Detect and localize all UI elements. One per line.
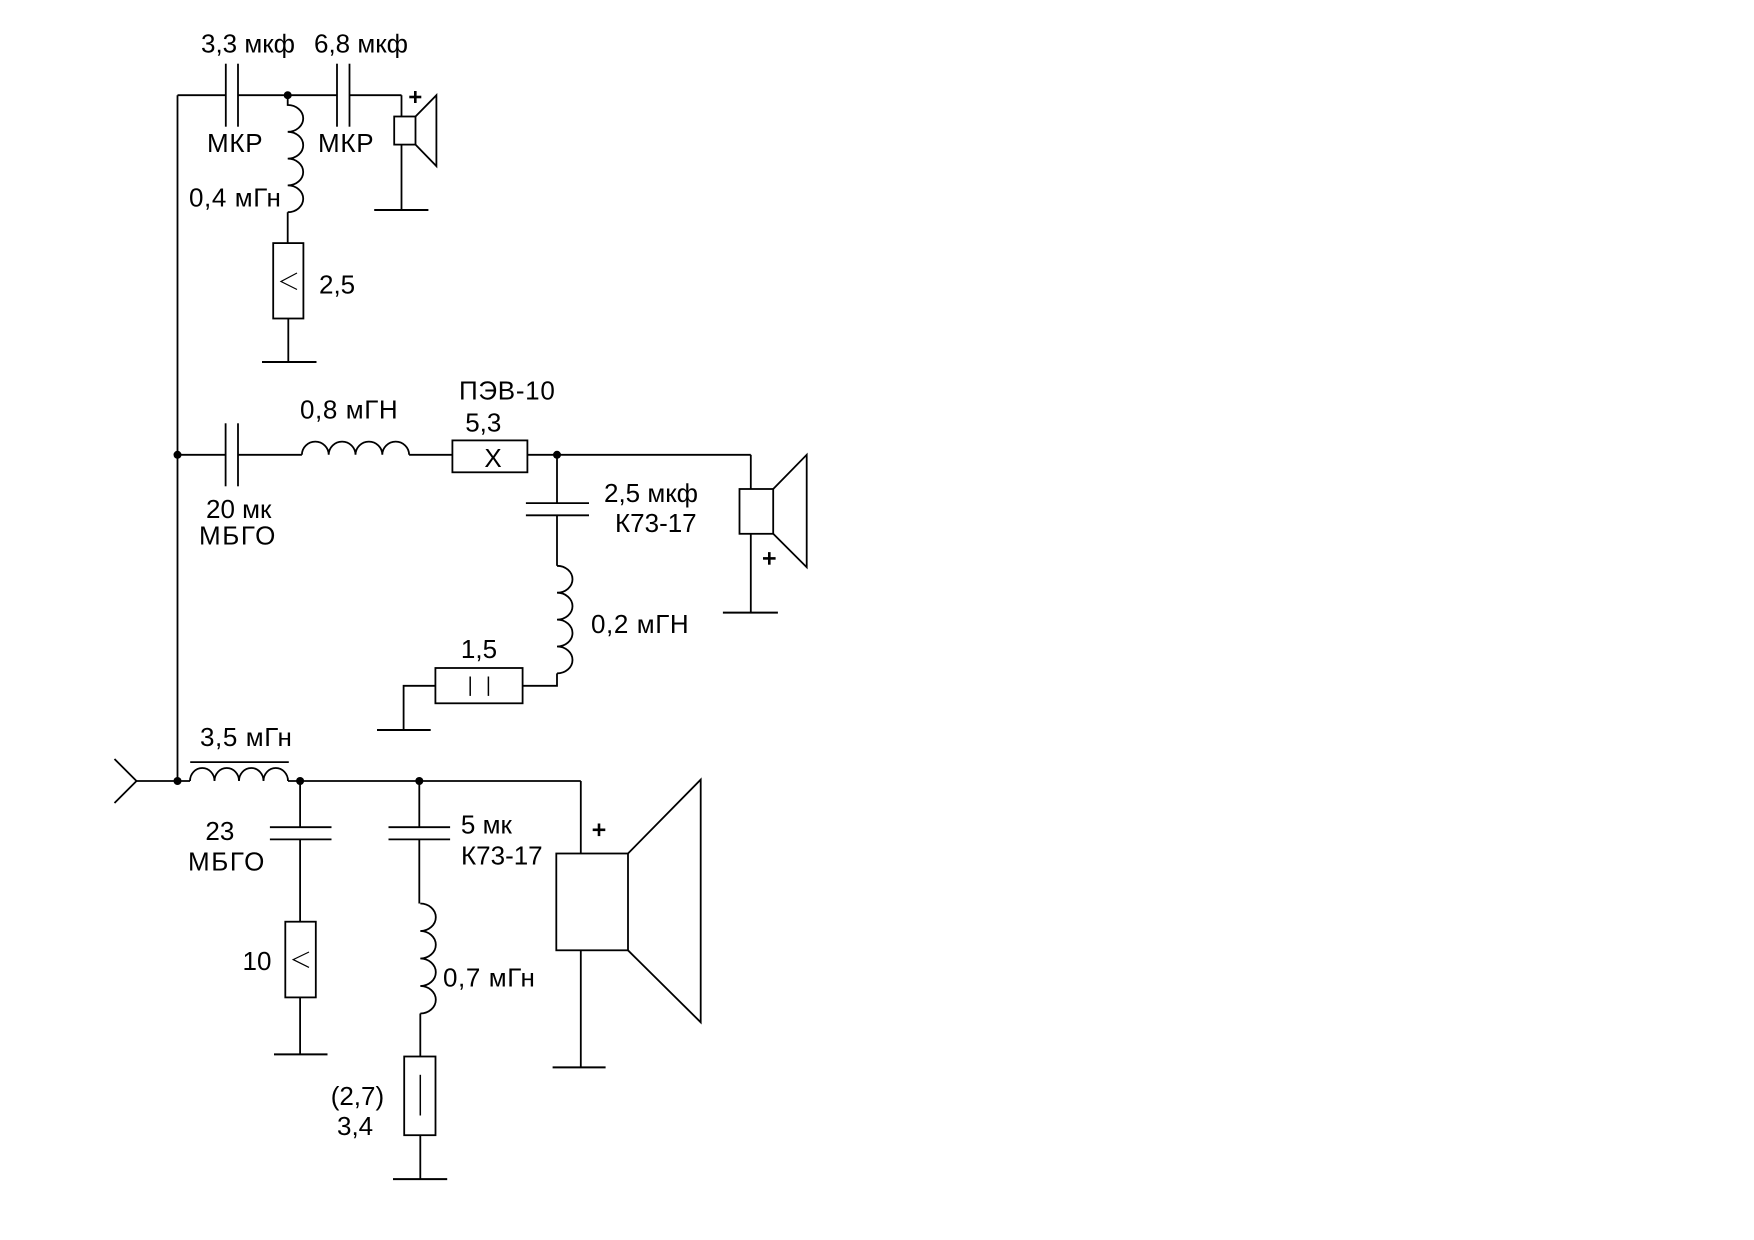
wire tweeter top segment 3: [350, 94, 402, 96]
wire node C down to C4: [556, 455, 558, 503]
ground under midrange speaker: [723, 612, 778, 614]
wire C3 to L2: [238, 454, 302, 456]
svg-text:3,3 мкф: 3,3 мкф: [201, 29, 295, 59]
ground under R1: [262, 361, 317, 363]
node A junction dot: [284, 91, 292, 99]
svg-text:5,3: 5,3: [465, 407, 501, 437]
svg-text:ПЭВ-10: ПЭВ-10: [459, 376, 556, 406]
svg-text:2,5: 2,5: [319, 270, 355, 300]
wire bus to C3: [178, 454, 226, 456]
wire bottom rail: [288, 780, 581, 782]
polarity plus midrange: [763, 552, 776, 565]
inductor L5 0,7 мГн: [420, 904, 435, 1014]
capacitor C6 5 мк К73-17: [389, 827, 451, 839]
wire R4 to ground: [299, 997, 301, 1054]
svg-text:(2,7): (2,7): [331, 1081, 384, 1111]
inductor L3 0,2 мГН: [557, 566, 573, 674]
capacitor C4 2,5 мкф К73-17: [526, 503, 589, 515]
svg-text:10: 10: [243, 946, 272, 976]
svg-text:МКР: МКР: [207, 128, 263, 158]
wire R1 to ground: [287, 319, 289, 363]
svg-text:2,5 мкф: 2,5 мкф: [604, 478, 698, 508]
resistor R5 (2,7) 3,4 (1W mark): [404, 1057, 435, 1136]
capacitor C3 20 мк МБГО: [226, 423, 238, 486]
svg-text:МБГО: МБГО: [199, 521, 277, 551]
inductor L2 0,8 мГН: [302, 442, 409, 455]
node D junction dot input bus bottom: [174, 777, 182, 785]
wire C5 to R4: [299, 839, 301, 921]
svg-text:МБГО: МБГО: [188, 847, 266, 877]
resistor R1 2,5 (5W mark): [273, 243, 303, 318]
capacitor C1 3,3 мкф МКР: [226, 64, 238, 127]
wire R5 to ground: [419, 1135, 421, 1179]
wire L3 to R3: [523, 673, 557, 685]
svg-text:20 мк: 20 мк: [206, 494, 272, 524]
inductor L1 0,4 мГн: [288, 95, 304, 212]
svg-text:0,2 мГН: 0,2 мГН: [591, 609, 689, 639]
speaker tweeter BA1: [394, 95, 436, 166]
svg-text:К73-17: К73-17: [461, 841, 543, 871]
svg-text:0,4 мГн: 0,4 мГн: [189, 183, 281, 213]
wire input bus vertical: [177, 95, 179, 781]
capacitor C5 23 МБГО: [270, 827, 332, 839]
wire node F down to C6: [418, 781, 420, 827]
wire node E down to C5: [299, 781, 301, 827]
wire C4 to L3: [556, 515, 558, 566]
speaker midrange BA2: [740, 455, 807, 567]
node C junction dot: [553, 451, 561, 459]
node E junction dot: [296, 777, 304, 785]
resistor R2 ПЭВ-10 5,3 (10W mark X): [452, 440, 527, 472]
ground under R3: [377, 729, 431, 731]
ground under R5: [393, 1178, 447, 1180]
inductor L4 3,5 мГн: [190, 768, 288, 781]
svg-text:3,5 мГн: 3,5 мГн: [200, 722, 292, 752]
svg-text:0,7 мГн: 0,7 мГн: [443, 963, 535, 993]
speaker woofer BA3: [556, 780, 700, 1023]
wire midrange speaker to ground: [750, 534, 752, 613]
svg-text:0,8 мГН: 0,8 мГН: [300, 395, 398, 425]
ground under tweeter: [374, 209, 428, 211]
polarity plus woofer: [593, 824, 606, 837]
node F junction dot: [415, 777, 423, 785]
terminal input chevron: [115, 759, 137, 803]
wire L1 to R1: [287, 212, 289, 243]
svg-text:6,8 мкф: 6,8 мкф: [314, 29, 408, 59]
wire R3 to ground: [404, 686, 436, 730]
svg-text:МКР: МКР: [318, 128, 374, 158]
capacitor C2 6,8 мкф МКР: [337, 64, 350, 127]
inductor L4 core line: [190, 761, 289, 763]
svg-text:3,4: 3,4: [337, 1111, 373, 1141]
resistor R4 10 (5W mark): [285, 922, 316, 998]
wire woofer to ground: [580, 950, 582, 1067]
wire input to L4: [137, 780, 191, 782]
wire to woofer: [580, 781, 582, 854]
wire to midrange speaker: [750, 455, 752, 489]
svg-text:5 мк: 5 мк: [461, 810, 513, 840]
wire tweeter to ground: [401, 145, 403, 210]
ground under R4: [274, 1053, 328, 1055]
wire tweeter top segment 1: [178, 94, 226, 96]
wire L2 to R2: [409, 454, 452, 456]
wire C6 to L5: [418, 839, 420, 903]
svg-text:К73-17: К73-17: [615, 508, 697, 538]
svg-text:23: 23: [205, 816, 234, 846]
node B junction dot midrange tap: [174, 451, 182, 459]
svg-text:1,5: 1,5: [461, 634, 497, 664]
polarity plus tweeter: [409, 91, 421, 103]
wire to tweeter: [401, 95, 403, 116]
wire R2 to speaker: [527, 454, 750, 456]
ground under woofer: [553, 1066, 606, 1068]
wire L5 to R5: [419, 1014, 421, 1057]
resistor R3 1,5 (2W mark): [435, 668, 522, 703]
svg-text:X: X: [484, 443, 501, 473]
wire tweeter top segment 2: [238, 94, 337, 96]
